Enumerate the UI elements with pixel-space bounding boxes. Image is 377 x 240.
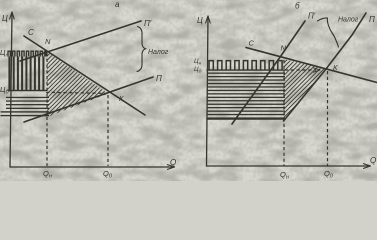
right original supply П [284, 13, 367, 121]
dashed vertical at Q0 [107, 95, 109, 166]
svg-text:П′: П′ [144, 19, 152, 28]
consumers tax burden: vertical hatch Цн-Ц0 [8, 57, 10, 91]
svg-text:П′: П′ [308, 12, 316, 21]
svg-text:Налог: Налог [338, 17, 359, 24]
right supply with tax П-prime [232, 21, 305, 124]
svg-text:Q: Q [370, 156, 376, 165]
dashed horizontal at Ц0 to K [46, 92, 105, 93]
lower producer-burden hatch lines reaching scan edge [1, 111, 50, 112]
svg-text:П: П [156, 74, 162, 83]
scan noise texture [0, 0, 1, 1]
svg-text:N: N [281, 44, 287, 53]
consumers tax burden: meander band Цн-Ц0 [209, 61, 282, 70]
scan background [0, 0, 377, 181]
supply with tax line П-prime [20, 21, 141, 61]
svg-text:Ц: Ц [197, 16, 203, 25]
right horizontal quantity axis [207, 165, 369, 167]
svg-text:N: N [45, 37, 51, 46]
svg-text:Налог: Налог [148, 49, 169, 56]
demand line C [24, 36, 145, 115]
left horizontal quantity axis [10, 166, 172, 168]
svg-text:К: К [333, 63, 338, 72]
original supply line П [24, 77, 153, 122]
right tax brace (diagonal) [318, 18, 339, 47]
right dashed horizontal with arrow to K [285, 69, 316, 71]
right dashed vertical at Qн [283, 60, 285, 166]
bottom edge of horizontal hatch at Цп [207, 118, 285, 120]
svg-text:К: К [119, 94, 124, 103]
svg-text:П: П [369, 15, 375, 24]
baseline of vertical hatch at Ц0 [8, 90, 46, 92]
svg-text:Ц: Ц [2, 14, 8, 23]
right dashed vertical at Q0 [327, 71, 329, 166]
dashed vertical at Qн [46, 53, 48, 166]
svg-text:С: С [28, 28, 34, 37]
producers tax burden: horizontal hatch below Ц0 [6, 97, 49, 98]
svg-text:а: а [115, 0, 120, 9]
producers tax burden: horizontal hatch Ц0-Цп [207, 73, 285, 74]
svg-text:б: б [295, 2, 300, 11]
right demand line C [246, 48, 377, 83]
svg-text:Q: Q [170, 158, 176, 167]
left vertical price axis [10, 12, 12, 167]
right vertical price axis [207, 16, 209, 166]
consumers tax burden: meander top edge at Цн [8, 51, 46, 56]
baseline at Ц0 right panel [207, 69, 284, 71]
tax brace [137, 27, 146, 72]
svg-text:С: С [249, 39, 255, 48]
